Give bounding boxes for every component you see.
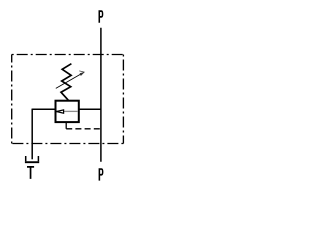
relief valve body V1 xyxy=(56,101,79,122)
port label P (top) xyxy=(99,10,104,22)
enclosure dash-dot boundary left xyxy=(11,55,13,144)
port label P (bottom) xyxy=(99,168,104,180)
enclosure dash-dot boundary top xyxy=(12,54,124,56)
pilot line stub (solid) xyxy=(65,122,67,129)
spring (relief valve setting spring) xyxy=(61,64,71,100)
wire corner down to tank xyxy=(31,109,33,160)
pilot line dashed to P line xyxy=(66,128,101,130)
valve internal arrowhead (points left) xyxy=(56,110,63,113)
enclosure dash-dot boundary bottom xyxy=(12,143,124,145)
adjustment arrow shaft xyxy=(56,72,84,88)
valve internal flow line (grey) xyxy=(63,110,77,112)
wire P line vertical xyxy=(100,28,102,162)
valve internal arrow stub at tip xyxy=(56,111,57,113)
wire right port to P line xyxy=(79,108,101,110)
enclosure dash-dot boundary right xyxy=(122,55,124,144)
tank symbol T1 xyxy=(25,156,27,161)
wire left port to corner xyxy=(32,108,55,110)
adjustment arrow head xyxy=(79,71,84,76)
port label T (bottom left) xyxy=(27,166,34,179)
